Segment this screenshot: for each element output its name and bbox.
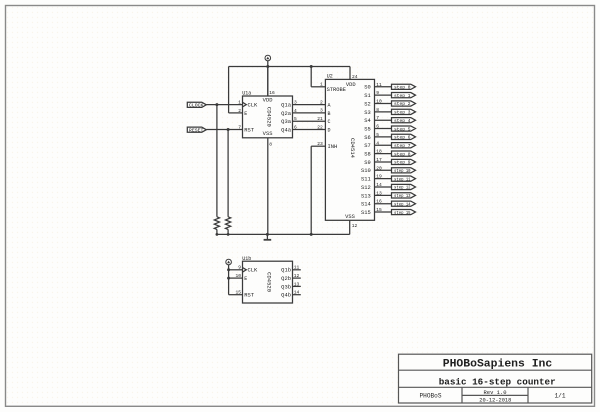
svg-text:6: 6 — [376, 124, 379, 130]
wire U2 S8 to port step 8 — [375, 153, 392, 155]
wire U1a VSS pin 8 to ground rail — [267, 138, 269, 235]
junction VSS/ground rail — [266, 233, 269, 236]
svg-text:PHOBoS: PHOBoS — [420, 393, 442, 400]
pin number 23 U2 — [317, 141, 323, 147]
svg-text:10: 10 — [376, 99, 382, 105]
wire U2 S7 to port step 7 — [375, 144, 392, 146]
svg-text:10: 10 — [235, 273, 241, 279]
svg-text:S1: S1 — [364, 93, 371, 99]
pin number 10 U2 S2 — [376, 99, 382, 105]
junction tie/CLK — [227, 268, 230, 271]
svg-text:1: 1 — [238, 100, 241, 106]
wire U2 S12 to port step 12 — [375, 186, 392, 188]
pin number 3 U2 — [320, 108, 323, 114]
svg-text:U1b: U1b — [242, 256, 251, 262]
svg-text:Q2a: Q2a — [281, 111, 291, 117]
ground symbol — [264, 234, 272, 239]
svg-text:basic 16-step counter: basic 16-step counter — [439, 376, 556, 387]
svg-text:Q2b: Q2b — [281, 276, 291, 282]
pin number 14 U1b — [294, 290, 300, 296]
port step 13 — [392, 193, 416, 199]
svg-text:9: 9 — [376, 90, 379, 96]
wire tie to U1b CLK pin 9 — [229, 269, 243, 271]
svg-text:step 10: step 10 — [394, 169, 411, 174]
svg-text:20: 20 — [376, 165, 382, 171]
pin number 9 U1b — [238, 265, 241, 271]
pin number 4 U2 S7 — [376, 140, 379, 146]
svg-text:4: 4 — [376, 140, 379, 146]
svg-text:S7: S7 — [364, 143, 371, 149]
svg-text:1: 1 — [320, 82, 323, 88]
op IC U1a CD4520 counter — [242, 91, 292, 138]
pin number 6 U1a — [294, 124, 297, 130]
port CLOCK — [187, 102, 206, 108]
svg-text:U1a: U1a — [242, 91, 251, 97]
svg-text:step 6: step 6 — [394, 136, 411, 141]
wire U2 S9 to port step 9 — [375, 161, 392, 163]
pin number 8 U1a VSS — [269, 142, 272, 148]
pin number 1 U1a — [238, 100, 241, 106]
wire U2 S5 to port step 5 — [375, 128, 392, 130]
svg-text:17: 17 — [376, 157, 382, 163]
svg-text:S5: S5 — [364, 126, 371, 132]
svg-text:S2: S2 — [364, 101, 371, 107]
svg-text:18: 18 — [376, 149, 382, 155]
pin number 16 U1a VDD — [269, 90, 275, 96]
title date — [479, 398, 511, 404]
pin number 22 U2 — [317, 124, 323, 130]
port step 9 — [392, 159, 416, 165]
wire R1 to ground rail — [216, 229, 218, 234]
svg-text:B: B — [328, 111, 331, 117]
wire U1b Q4b stub pin 14 — [293, 294, 301, 296]
port RESET — [187, 127, 206, 133]
supply reference symbol U1b tie — [226, 259, 232, 265]
svg-text:step 15: step 15 — [394, 211, 411, 216]
svg-text:7: 7 — [238, 124, 241, 130]
svg-text:Q1b: Q1b — [281, 268, 291, 274]
wire U2 S3 to port step 3 — [375, 111, 392, 113]
svg-text:CLOCK: CLOCK — [189, 104, 204, 109]
wire VDD top rail — [229, 66, 350, 68]
port step 0 — [392, 84, 416, 90]
pin number 9 U2 S1 — [376, 90, 379, 96]
resistor R1 — [214, 217, 219, 230]
port step 14 — [392, 201, 416, 207]
port step 5 — [392, 126, 416, 132]
svg-text:E: E — [244, 111, 247, 117]
svg-text:CLK: CLK — [248, 268, 258, 274]
svg-text:PHOBoSapiens Inc: PHOBoSapiens Inc — [443, 358, 553, 370]
wire tie to U1b RST pin 15 — [229, 294, 243, 296]
svg-text:CD4520: CD4520 — [266, 107, 273, 128]
wire U1a VDD lead — [267, 67, 269, 97]
IC U2 CD4514 decoder — [325, 74, 374, 221]
svg-text:A: A — [328, 103, 331, 109]
svg-text:3: 3 — [320, 108, 323, 114]
svg-text:Q4a: Q4a — [281, 127, 291, 133]
svg-text:7: 7 — [376, 115, 379, 121]
svg-text:step 13: step 13 — [394, 194, 411, 199]
svg-text:S8: S8 — [364, 152, 371, 158]
pin number 14 U2 S12 — [376, 182, 382, 188]
port step 10 — [392, 168, 416, 174]
wire U2 S13 to port step 13 — [375, 194, 392, 196]
junction tie/E — [227, 277, 230, 280]
wire U1a Q1a to U2 A — [293, 104, 326, 106]
wire U2 S6 to port step 6 — [375, 136, 392, 138]
svg-text:CLK: CLK — [248, 103, 258, 109]
port step 4 — [392, 118, 416, 124]
pin number 7 U2 S4 — [376, 115, 379, 121]
wire CLOCK to U1a CLK pin 1 — [206, 104, 242, 106]
svg-text:Q3b: Q3b — [281, 284, 291, 290]
svg-text:step 1: step 1 — [394, 94, 411, 99]
svg-text:S15: S15 — [361, 210, 371, 216]
wire U1b Q2b stub pin 12 — [293, 277, 301, 279]
svg-text:step 2: step 2 — [394, 102, 411, 107]
svg-text:RST: RST — [244, 127, 254, 133]
port step 1 — [392, 93, 416, 99]
svg-text:VDD: VDD — [346, 82, 356, 88]
svg-text:S14: S14 — [361, 202, 371, 208]
svg-text:15: 15 — [235, 290, 241, 296]
svg-text:2: 2 — [238, 108, 241, 114]
pin number 21 U2 — [317, 116, 323, 122]
svg-text:RST: RST — [244, 293, 254, 299]
svg-text:step 12: step 12 — [394, 186, 411, 191]
port step 11 — [392, 176, 416, 182]
port step 8 — [392, 151, 416, 157]
svg-text:22: 22 — [317, 124, 323, 130]
pin number 15 U2 S15 — [376, 207, 382, 213]
svg-text:S6: S6 — [364, 135, 371, 141]
wire U2 S4 to port step 4 — [375, 119, 392, 121]
svg-text:STROBE: STROBE — [327, 87, 346, 93]
pin number 15 U1b — [235, 290, 241, 296]
svg-text:21: 21 — [317, 116, 323, 122]
svg-text:RESET: RESET — [189, 128, 204, 133]
svg-text:5: 5 — [294, 116, 297, 122]
title block — [399, 354, 592, 403]
pin number 17 U2 S9 — [376, 157, 382, 163]
pin number 16 U2 S14 — [376, 199, 382, 205]
junction INH/ground rail — [310, 233, 313, 236]
pin number 7 U1a — [238, 124, 241, 130]
svg-text:step 8: step 8 — [394, 152, 411, 157]
pin number 1 U2 — [320, 82, 323, 88]
svg-text:16: 16 — [269, 90, 275, 96]
svg-text:S11: S11 — [361, 177, 371, 183]
junction RESET/R2 — [227, 128, 230, 131]
svg-text:step 0: step 0 — [394, 86, 411, 91]
svg-text:CD4520: CD4520 — [266, 272, 273, 293]
title sheet number — [555, 393, 566, 400]
pin number 18 U2 S8 — [376, 149, 382, 155]
svg-text:13: 13 — [376, 190, 382, 196]
pin number 13 U2 S13 — [376, 190, 382, 196]
junction CLOCK/R1 — [215, 103, 218, 106]
port step 15 — [392, 209, 416, 215]
pin number 10 U1b — [235, 273, 241, 279]
wire RESET node down to R2 — [227, 130, 229, 217]
wire CLOCK node down to R1 — [216, 105, 218, 217]
wire U1b tie stem — [228, 265, 230, 295]
wire ground rail — [217, 233, 350, 235]
pin number 19 U2 S11 — [376, 174, 382, 180]
resistor R2 — [226, 217, 231, 230]
pin number 11 U2 S0 — [376, 82, 382, 88]
svg-text:8: 8 — [376, 107, 379, 113]
svg-text:8: 8 — [269, 142, 272, 148]
wire U1b Q3b stub pin 13 — [293, 285, 301, 287]
port step 6 — [392, 134, 416, 140]
svg-text:12: 12 — [294, 273, 300, 279]
svg-text:12: 12 — [352, 223, 358, 229]
pin number 4 U1a — [294, 108, 297, 114]
svg-text:11: 11 — [294, 265, 300, 271]
svg-text:19: 19 — [376, 174, 382, 180]
svg-text:2: 2 — [320, 99, 323, 105]
svg-text:6: 6 — [294, 124, 297, 130]
port step 2 — [392, 101, 416, 107]
wire rail to U1a E pin — [229, 67, 243, 113]
pin number 24 U2 VDD — [352, 74, 358, 80]
svg-text:S12: S12 — [361, 185, 371, 191]
svg-text:S3: S3 — [364, 110, 371, 116]
wire RESET to U1a RST pin 7 — [206, 129, 242, 131]
svg-text:E: E — [244, 276, 247, 282]
wire U2 VSS pin 12 to ground rail — [349, 220, 351, 234]
svg-text:11: 11 — [376, 82, 382, 88]
pin number 6 U2 S5 — [376, 124, 379, 130]
wire U2 S1 to port step 1 — [375, 94, 392, 96]
svg-text:step 14: step 14 — [394, 202, 411, 207]
wire tie to U1b E pin 10 — [229, 277, 243, 279]
wire rail to U2 VDD pin 24 — [349, 67, 351, 80]
junction R1/ground rail — [216, 233, 219, 236]
svg-text:16: 16 — [376, 199, 382, 205]
wire U2 S0 to port step 0 — [375, 86, 392, 88]
svg-text:D: D — [328, 127, 331, 133]
svg-text:23: 23 — [317, 141, 323, 147]
title revision — [484, 390, 507, 396]
pin number 5 U1a — [294, 116, 297, 122]
pin number 12 U1b — [294, 273, 300, 279]
svg-text:step 11: step 11 — [394, 177, 411, 182]
pin number 20 U2 S10 — [376, 165, 382, 171]
wire rail to U2 STROBE pin 1 — [311, 67, 325, 87]
title company name — [443, 358, 553, 370]
svg-text:VSS: VSS — [263, 131, 273, 137]
wire U2 S2 to port step 2 — [375, 103, 392, 105]
svg-text:S4: S4 — [364, 118, 371, 124]
svg-text:5: 5 — [376, 132, 379, 138]
svg-text:24: 24 — [352, 74, 358, 80]
pin number 2 U2 — [320, 99, 323, 105]
svg-text:step 9: step 9 — [394, 161, 411, 166]
title document name — [439, 376, 556, 387]
VCC supply symbol — [265, 55, 271, 61]
pin number 8 U2 S3 — [376, 107, 379, 113]
svg-text:4: 4 — [294, 108, 297, 114]
svg-text:14: 14 — [294, 290, 300, 296]
IC U1b CD4520 counter (unused half) — [242, 256, 292, 303]
wire U2 S11 to port step 11 — [375, 178, 392, 180]
wire U1a Q3a to U2 C — [293, 120, 326, 122]
svg-text:15: 15 — [376, 207, 382, 213]
wire U1b Q1b stub pin 11 — [293, 269, 301, 271]
wire U1a Q4a to U2 D — [293, 129, 326, 131]
port step 7 — [392, 143, 416, 149]
pin number 5 U2 S6 — [376, 132, 379, 138]
svg-text:Rev 1.0: Rev 1.0 — [484, 390, 507, 396]
wire U2 S14 to port step 14 — [375, 203, 392, 205]
svg-text:1/1: 1/1 — [555, 393, 566, 400]
svg-text:Q1a: Q1a — [281, 103, 291, 109]
svg-text:S9: S9 — [364, 160, 371, 166]
svg-text:Q4b: Q4b — [281, 293, 291, 299]
title author — [420, 393, 442, 400]
svg-text:20-12-2018: 20-12-2018 — [479, 398, 511, 404]
svg-text:14: 14 — [376, 182, 382, 188]
wire U2 S15 to port step 15 — [375, 211, 392, 213]
wire U1a Q2a to U2 B — [293, 112, 326, 114]
pin number 2 U1a — [238, 108, 241, 114]
junction VCC/rail — [266, 65, 269, 68]
port step 12 — [392, 184, 416, 190]
port step 3 — [392, 109, 416, 115]
pin number 3 U1a — [294, 100, 297, 106]
junction R2/ground rail — [227, 233, 230, 236]
svg-text:VSS: VSS — [345, 214, 355, 220]
svg-text:S13: S13 — [361, 193, 371, 199]
svg-text:VDD: VDD — [263, 97, 273, 103]
wire VCC stem to U1a VDD pin 16 — [267, 61, 269, 96]
wire U2 INH pin 23 to ground rail — [311, 146, 325, 234]
svg-text:step 5: step 5 — [394, 127, 411, 132]
svg-text:CD4514: CD4514 — [349, 138, 356, 159]
pin number 12 U2 VSS — [352, 223, 358, 229]
junction STROBE/rail — [310, 65, 313, 68]
svg-text:13: 13 — [294, 281, 300, 287]
svg-text:INH: INH — [328, 144, 338, 150]
wire R2 to ground rail — [227, 229, 229, 234]
svg-text:step 7: step 7 — [394, 144, 411, 149]
svg-text:S0: S0 — [364, 85, 371, 91]
wire U2 S10 to port step 10 — [375, 169, 392, 171]
svg-text:step 3: step 3 — [394, 111, 411, 116]
svg-text:S10: S10 — [361, 168, 371, 174]
svg-text:9: 9 — [238, 265, 241, 271]
pin number 13 U1b — [294, 281, 300, 287]
svg-text:step 4: step 4 — [394, 119, 411, 124]
pin number 11 U1b — [294, 265, 300, 271]
svg-text:C: C — [328, 119, 331, 125]
svg-text:3: 3 — [294, 100, 297, 106]
svg-text:Q3a: Q3a — [281, 119, 291, 125]
svg-text:U2: U2 — [327, 74, 333, 80]
